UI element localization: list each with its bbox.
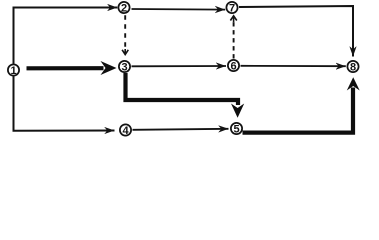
svg-text:2: 2 <box>121 2 127 14</box>
svg-text:4: 4 <box>122 125 129 137</box>
svg-text:1: 1 <box>10 65 16 77</box>
svg-text:7: 7 <box>229 2 235 14</box>
svg-text:8: 8 <box>350 61 356 73</box>
svg-text:6: 6 <box>230 60 236 72</box>
svg-text:3: 3 <box>121 61 127 73</box>
svg-text:5: 5 <box>233 123 239 135</box>
